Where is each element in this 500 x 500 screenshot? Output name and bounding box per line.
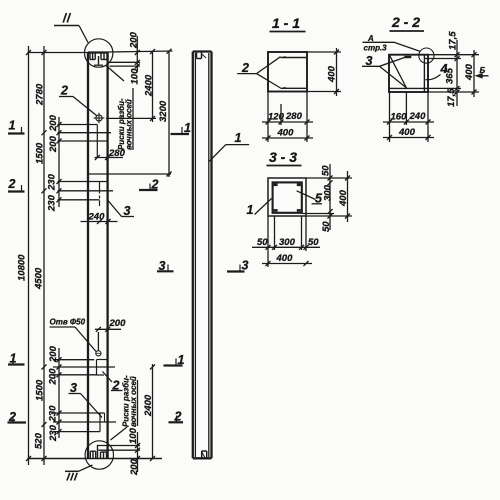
right cut marker 1 (top) [171,133,190,135]
front view bottom line [28,458,163,460]
section 2-2 weld mark (black bar) [404,56,411,58]
dim 3200 (top right) [168,51,170,177]
left chain B: 2780/1500/4500/1500/520 [43,46,45,465]
bottom right dims 100/200 [137,432,139,472]
svg-text:17,5: 17,5 [446,88,457,107]
svg-text:300: 300 [323,184,334,201]
svg-text:230: 230 [47,173,58,191]
svg-text:520: 520 [34,432,45,449]
detail circle III at column bottom [85,441,113,469]
left cut marker 2 (bottom) [8,421,27,423]
svg-text:365: 365 [445,67,456,84]
label II with leader [63,13,66,23]
svg-text:400: 400 [276,253,294,264]
dimension 240 [81,221,118,223]
left chain C small dims [58,117,60,207]
svg-text:100: 100 [130,68,141,85]
svg-text:1500: 1500 [35,379,46,401]
riska group 1: axis cross mark [94,113,105,123]
riska group 2 extension lines [88,173,171,175]
svg-text:120: 120 [268,112,285,123]
section 3-3 stirrup square [273,182,302,212]
side view cut marker 3 (right) [227,270,245,272]
svg-text:4500: 4500 [34,267,45,290]
right cut marker 2 (top) [139,189,158,191]
svg-text:3 - 3: 3 - 3 [269,149,297,165]
svg-text:50: 50 [321,221,332,232]
riska group 3 plate rectangle [96,360,98,376]
svg-text:2: 2 [241,61,249,75]
svg-text:2: 2 [8,177,16,191]
svg-text:200: 200 [48,114,59,132]
svg-text:2400: 2400 [144,74,155,97]
dim 2400 (top right) [106,117,156,119]
side view chamfer inner lines [194,53,196,457]
svg-text:вочных осей: вочных осей [129,376,138,427]
top anchor marks inside circle II [90,53,107,66]
svg-text:300: 300 [279,237,296,248]
section 2-2 bottom dims 160/240 and 400 [389,92,391,142]
right cut marker 2 (bottom) [169,421,184,423]
side view bottom notch [201,451,203,458]
svg-text:3: 3 [242,259,249,273]
detail circle II at column top [85,39,113,67]
svg-text:3: 3 [159,259,166,273]
svg-text:200: 200 [48,345,59,363]
bottom riska extension lines [98,445,141,447]
svg-text:2: 2 [112,379,120,393]
dim 2400 (bottom right) [152,364,154,459]
svg-text:50: 50 [308,237,319,248]
riska group 4 extension lines [53,412,105,414]
left cut marker 1 (top) [8,132,25,134]
svg-text:400: 400 [464,63,475,81]
front view column outline [88,53,108,459]
svg-text:вочных осей: вочных осей [125,99,134,150]
svg-text:160: 160 [391,112,408,123]
left cut marker 2 (top) [8,190,25,192]
left cut marker 1 (bottom) [8,363,25,365]
svg-text:400: 400 [277,128,295,139]
section 1-1 square [268,52,307,92]
svg-text:280: 280 [285,111,303,122]
section 3-3 label 5 with leader [297,191,316,200]
svg-text:100: 100 [128,427,139,444]
svg-text:200: 200 [109,318,127,329]
label 2 (bottom) with leader [103,372,113,383]
svg-text:1: 1 [247,203,254,217]
section 1-1 right dim 400 [307,51,341,53]
top riska tick line [94,64,103,66]
label 3 (top) with leader [108,201,122,217]
svg-text:2400: 2400 [143,394,154,417]
svg-text:240: 240 [88,212,106,223]
riska group 2 vertical line [99,182,101,207]
svg-text:2: 2 [151,178,159,192]
svg-text:230: 230 [47,194,58,212]
section 1-1 bottom dims 120/280 and 400 [267,92,269,143]
svg-text:200: 200 [129,31,140,49]
dimension 200 hole to edge [97,332,99,351]
side view cut marker 3 (left) [157,270,174,272]
side view column outline [193,52,212,459]
svg-text:230: 230 [48,424,59,442]
section 2-2 inner plate lines [423,55,425,92]
svg-text:200: 200 [129,458,140,476]
svg-text:Отв Ф50: Отв Ф50 [50,318,86,327]
svg-text:1: 1 [184,121,191,135]
right cut marker 1 (bottom) [164,364,183,366]
section 3-3 bottom dims 50/300/50 and 400 [267,216,269,267]
section 3-3 outer square [268,178,306,216]
section 2-2 right dims 17.5/365/17.5 and 400 [428,54,479,56]
svg-text:50: 50 [321,165,332,176]
left chain A: overall 10800 [28,46,30,465]
dimension 280 (riska to edge) [95,157,124,159]
dim 200 chain (top right) [136,36,138,72]
svg-text:400: 400 [327,65,338,83]
svg-text:200: 200 [48,135,59,153]
svg-text:1: 1 [9,119,16,133]
svg-text:2 - 2: 2 - 2 [391,14,420,30]
riska group 4 vertical line [99,413,101,432]
svg-text:стр.3: стр.3 [364,44,388,53]
svg-text:1 - 1: 1 - 1 [272,15,300,31]
svg-text:2: 2 [174,410,182,424]
front view top extension line [28,52,89,54]
section 3-3 corner rebar marks [274,185,301,211]
svg-text:400: 400 [398,127,416,138]
svg-text:1: 1 [235,131,242,145]
svg-text:2: 2 [60,84,68,98]
svg-text:2: 2 [8,410,16,424]
section 3-3 right dims 50/300/50 and 400 [306,177,352,179]
section 2-2 square [389,55,428,92]
svg-text:3200: 3200 [158,100,169,122]
svg-text:1: 1 [10,352,17,366]
svg-text:240: 240 [409,111,427,122]
svg-text:400: 400 [338,189,349,207]
label III with leader [65,470,79,472]
svg-text:3: 3 [124,204,131,218]
section 1-1 flange lines [281,57,307,59]
riska group 1 extension lines [58,124,98,126]
svg-text:17,5: 17,5 [448,31,459,50]
svg-text:1500: 1500 [35,142,46,164]
riska group 1 vertical plate line [96,125,98,158]
svg-text:230: 230 [48,405,59,423]
top right dims: extension at top [108,51,173,52]
svg-text:10800: 10800 [17,254,28,281]
side view top notch [196,52,198,59]
svg-text:200: 200 [48,368,59,386]
svg-text:1: 1 [178,353,185,367]
svg-text:2780: 2780 [35,83,46,106]
bottom anchor marks inside circle III [90,445,106,459]
svg-text:50: 50 [257,237,268,248]
section 2-2 corner diagonal [390,55,407,88]
riska group 3 extension lines [53,359,94,361]
